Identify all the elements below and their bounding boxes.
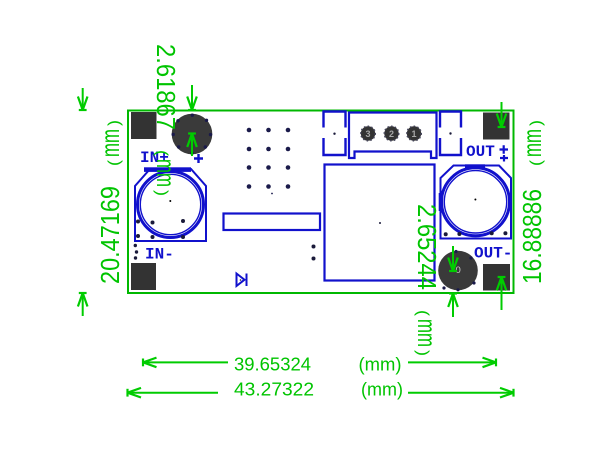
dim arrow up board-bottom pot — [448, 294, 458, 318]
pad bracket left — [324, 112, 346, 156]
connector pin 3 — [361, 126, 375, 140]
dim arrow down potentiometer — [448, 246, 458, 271]
pad BL mounting hole — [131, 263, 156, 290]
connector pin 1 — [407, 126, 421, 140]
svg-text:1: 1 — [412, 129, 417, 139]
PCB board outline — [128, 111, 514, 294]
drill dots near IN- — [134, 244, 139, 260]
dim arrow down inductor — [187, 85, 197, 110]
dim arrow down board-top left — [78, 88, 88, 110]
pad bracket right — [440, 112, 461, 156]
svg-text:OUT: OUT — [466, 143, 495, 161]
resistor R1 long rect — [224, 214, 321, 231]
dim arrow up pad BR — [497, 277, 507, 310]
svg-text:OUT-: OUT- — [474, 245, 512, 263]
dim arrow down pad TR — [497, 102, 507, 127]
svg-text:16.88886(mm): 16.88886(mm) — [517, 120, 547, 284]
connector J1 outline — [349, 113, 437, 159]
svg-text:IN-: IN- — [145, 246, 174, 264]
dim arrow up board-bottom left — [78, 293, 88, 316]
via grid — [247, 128, 291, 195]
potentiometer RV1 — [438, 250, 478, 292]
svg-text:2.61867(mm): 2.61867(mm) — [151, 44, 181, 196]
IC U1 LM2596 — [325, 165, 435, 281]
capacitor C1 input — [135, 167, 206, 241]
dim arrow up inductor center — [187, 134, 197, 157]
pad TL mounting hole — [131, 112, 157, 139]
capacitor C2 output — [439, 164, 511, 238]
inductor L1 — [172, 114, 213, 155]
svg-text:2: 2 — [389, 129, 394, 139]
svg-text:3: 3 — [366, 129, 371, 139]
connector pin 2 — [384, 126, 398, 140]
capacitor C1 plus mark — [194, 154, 203, 163]
diode D1 — [237, 274, 247, 287]
label OUT+ — [466, 143, 508, 162]
pad TR mounting hole — [483, 113, 510, 140]
pad BR mounting hole — [483, 264, 510, 291]
svg-text:20.47169(mm): 20.47169(mm) — [95, 120, 125, 284]
svg-text:2.65244(mm): 2.65244(mm) — [412, 204, 442, 356]
dots left of IC — [312, 245, 316, 261]
dim line 39.65324 — [143, 358, 496, 368]
dim line 43.27322 — [128, 388, 514, 398]
